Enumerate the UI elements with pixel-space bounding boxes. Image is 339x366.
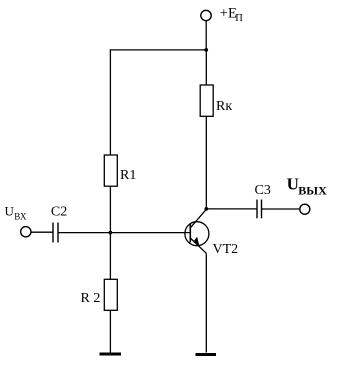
wire Uin terminal to C2 xyxy=(31,231,53,233)
wire R1 bottom to base node xyxy=(109,186,111,232)
resistor R2 xyxy=(104,279,117,310)
wire C2 to base node and on to transistor base xyxy=(58,232,190,234)
svg-text:П: П xyxy=(235,13,243,24)
wire R2 bottom to ground xyxy=(109,310,111,352)
svg-text:С2: С2 xyxy=(51,204,67,219)
svg-text:VT2: VT2 xyxy=(213,242,239,257)
wire left branch vertical down to R1 xyxy=(109,50,111,155)
transistor body circle xyxy=(185,222,209,246)
svg-text:R1: R1 xyxy=(120,168,136,183)
terminal +Ep (power supply) xyxy=(201,10,211,20)
emitter arrow head xyxy=(194,238,199,246)
node base junction xyxy=(109,231,113,235)
terminal Uin xyxy=(21,227,31,237)
svg-text:С3: С3 xyxy=(255,183,271,198)
svg-text:ВЫХ: ВЫХ xyxy=(298,184,327,198)
svg-text:ВХ: ВХ xyxy=(14,212,27,222)
emitter lead with arrow xyxy=(190,238,206,253)
node top junction xyxy=(204,48,208,52)
wire base node down to R2 xyxy=(109,233,111,280)
wire Rk top: from top junction down to Rk xyxy=(205,50,207,85)
wire collector node to C3 xyxy=(206,208,257,210)
svg-text:R 2: R 2 xyxy=(81,291,101,306)
base bar xyxy=(189,224,191,243)
capacitor C3 xyxy=(256,200,258,219)
svg-text:Rк: Rк xyxy=(216,99,232,114)
wire C3 to Uout terminal xyxy=(262,208,300,210)
resistor R1 xyxy=(104,155,117,186)
terminal Uout xyxy=(300,204,310,214)
ground (left, under R2) xyxy=(100,353,122,356)
node collector junction xyxy=(204,207,208,211)
svg-text:U: U xyxy=(5,203,15,218)
wire emitter down to ground xyxy=(205,253,207,352)
svg-text:U: U xyxy=(287,175,299,194)
collector lead xyxy=(190,209,206,228)
transistor VT2 xyxy=(185,209,209,253)
resistor Rk xyxy=(200,85,213,116)
wire Rk bottom to collector node xyxy=(205,116,207,209)
wire from +Ep terminal down to top junction xyxy=(205,21,207,50)
wire top horizontal to left branch xyxy=(110,49,206,51)
ground (right, under emitter) xyxy=(196,353,217,356)
capacitor C2 xyxy=(52,223,54,243)
